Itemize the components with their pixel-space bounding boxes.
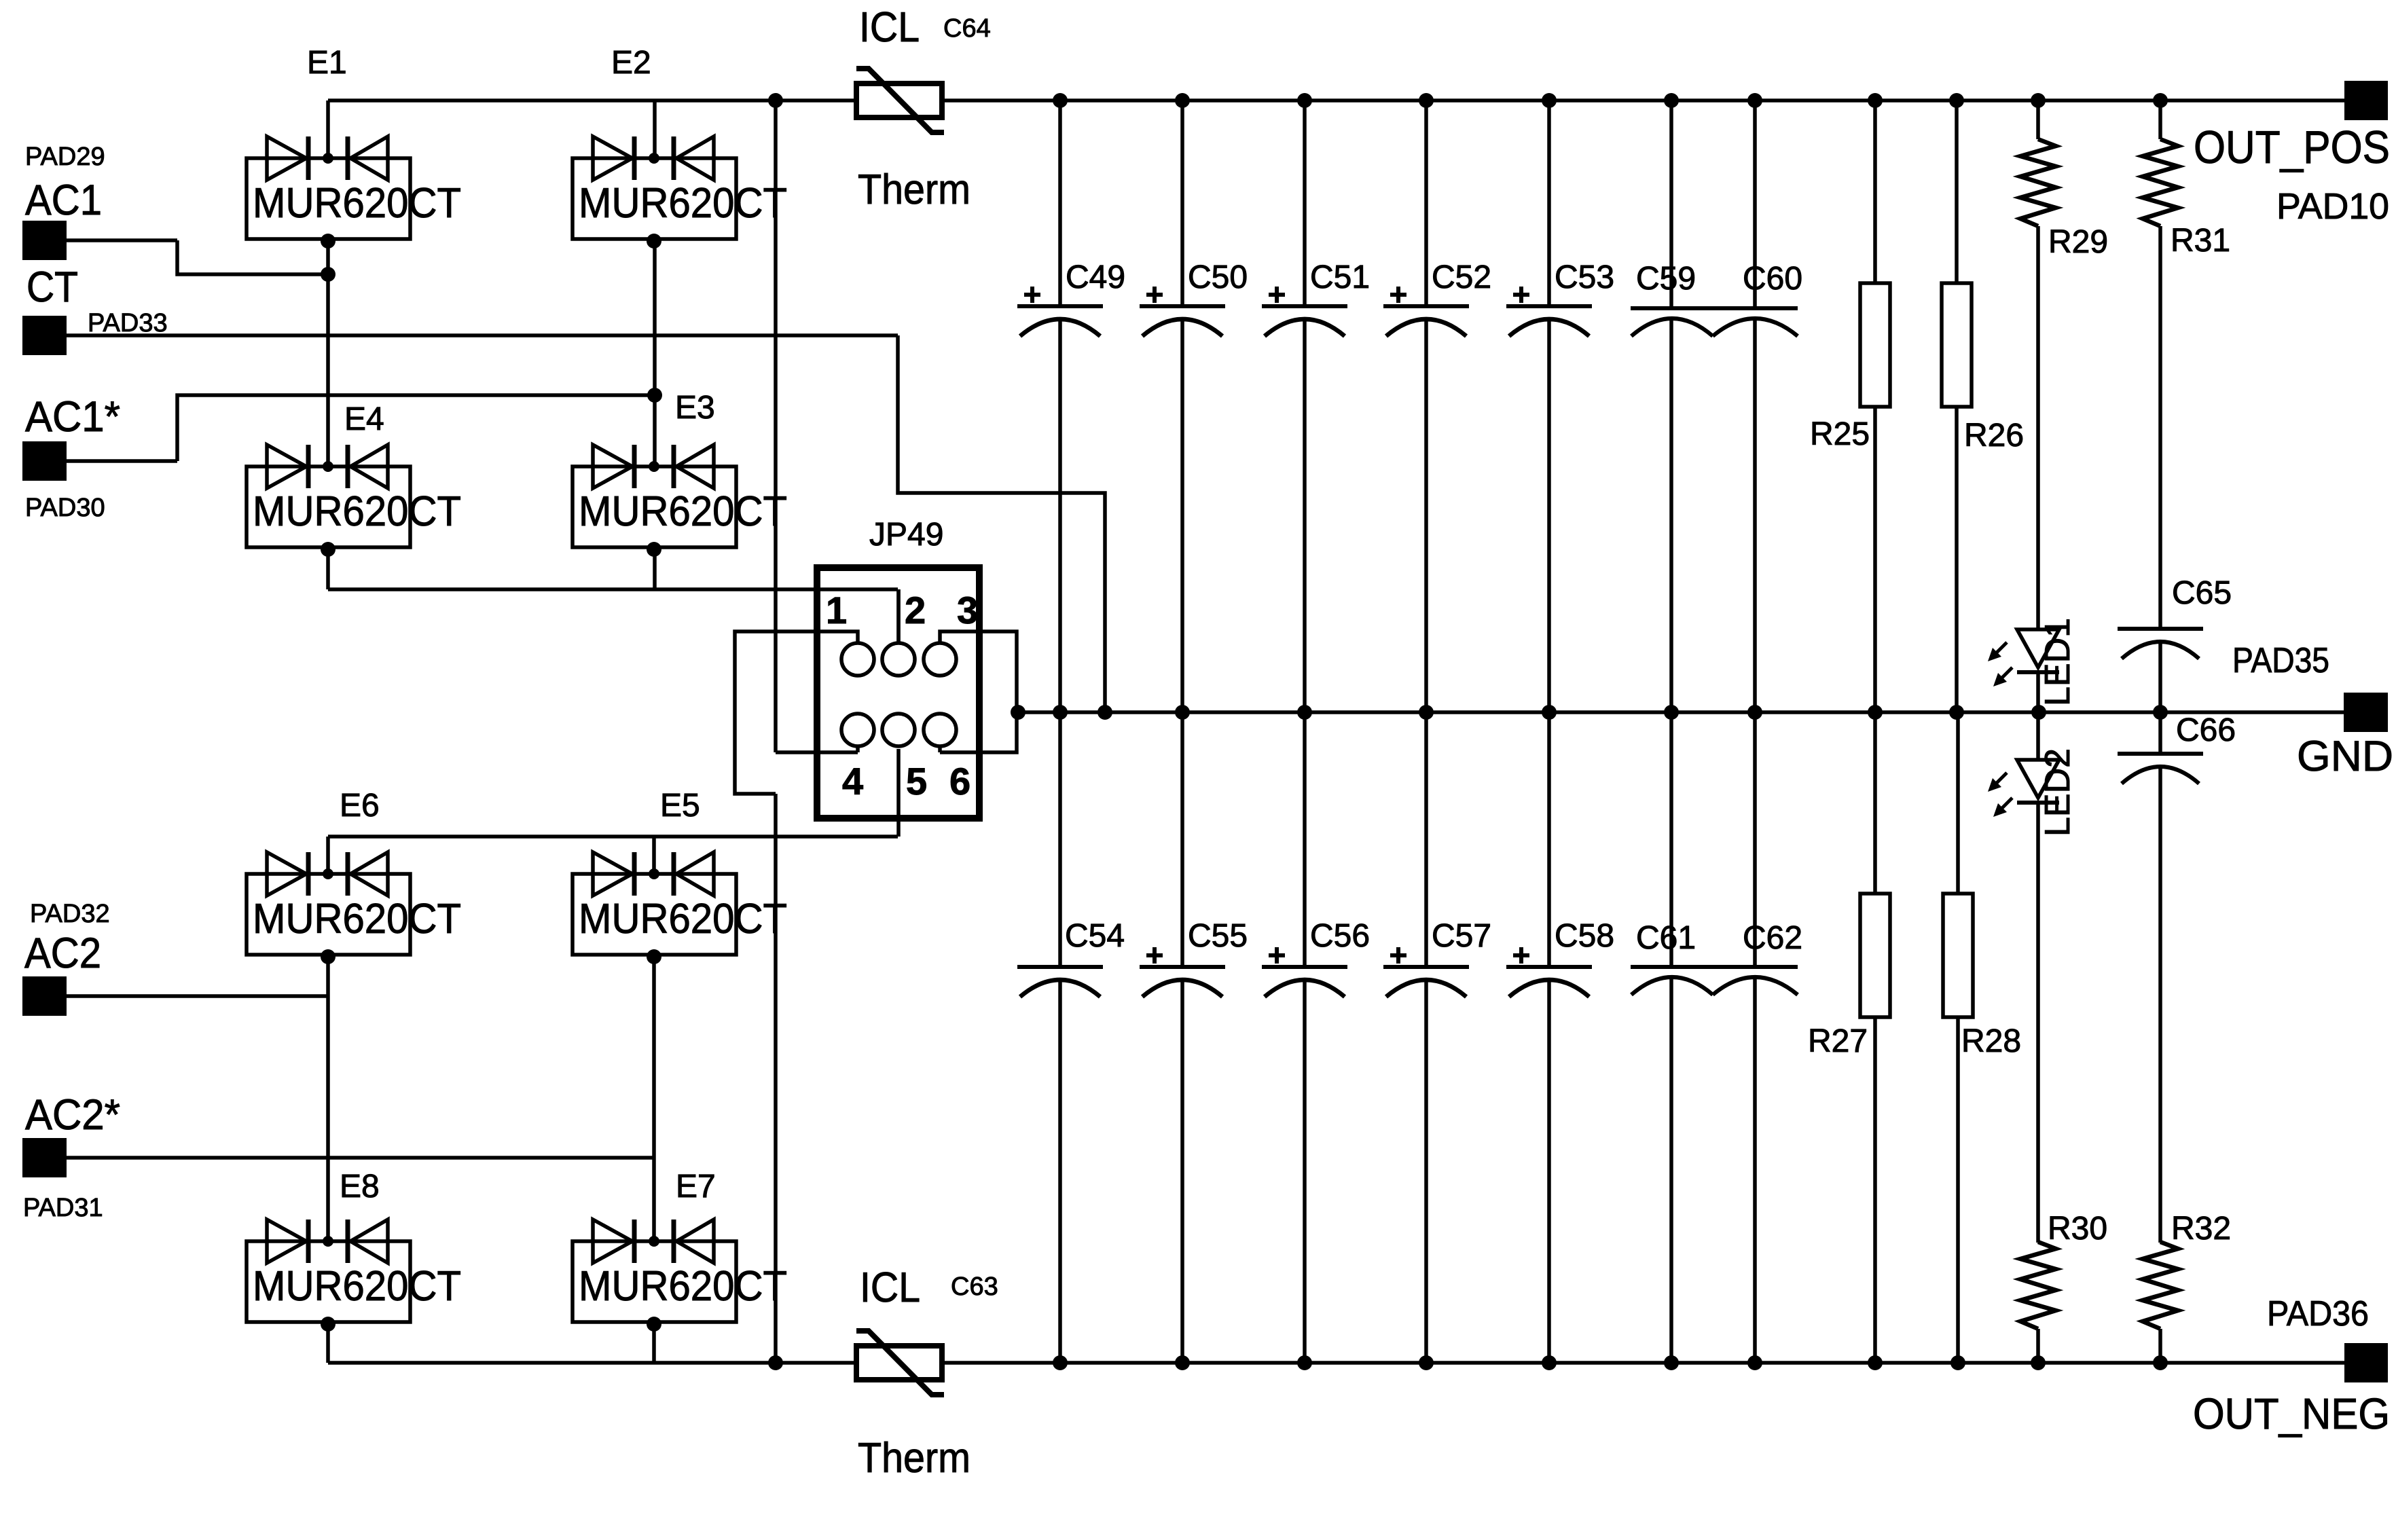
svg-text:R26: R26	[1964, 418, 2024, 454]
svg-text:MUR620CT: MUR620CT	[253, 488, 461, 535]
svg-text:JP49: JP49	[869, 517, 943, 553]
svg-text:E4: E4	[344, 401, 384, 437]
svg-text:C56: C56	[1310, 918, 1370, 954]
svg-text:C59: C59	[1636, 261, 1696, 297]
svg-text:ICL: ICL	[860, 1264, 920, 1311]
svg-text:C61: C61	[1636, 920, 1696, 956]
svg-text:R30: R30	[2048, 1211, 2107, 1247]
svg-text:OUT_NEG: OUT_NEG	[2193, 1389, 2390, 1438]
svg-text:C51: C51	[1310, 259, 1370, 295]
svg-text:C60: C60	[1743, 261, 1802, 297]
svg-text:Therm: Therm	[858, 166, 970, 213]
svg-text:PAD32: PAD32	[30, 900, 110, 928]
svg-text:PAD10: PAD10	[2276, 186, 2389, 227]
svg-text:E5: E5	[660, 788, 700, 824]
svg-text:R29: R29	[2048, 224, 2108, 260]
svg-text:MUR620CT: MUR620CT	[579, 1263, 787, 1310]
svg-text:AC1: AC1	[25, 177, 102, 224]
svg-text:C52: C52	[1432, 259, 1491, 295]
svg-text:R32: R32	[2171, 1211, 2231, 1247]
svg-text:R27: R27	[1808, 1023, 1868, 1059]
svg-text:AC2*: AC2*	[25, 1091, 120, 1139]
svg-text:C57: C57	[1432, 918, 1491, 954]
svg-text:E3: E3	[675, 390, 715, 426]
svg-text:ICL: ICL	[859, 4, 920, 51]
svg-text:MUR620CT: MUR620CT	[579, 180, 787, 227]
svg-text:GND: GND	[2297, 733, 2393, 780]
svg-text:C66: C66	[2176, 712, 2236, 748]
svg-text:C58: C58	[1555, 918, 1614, 954]
svg-text:AC2: AC2	[24, 930, 101, 977]
svg-text:LED1: LED1	[2038, 618, 2077, 706]
svg-text:E1: E1	[307, 45, 347, 81]
svg-text:MUR620CT: MUR620CT	[579, 488, 787, 535]
svg-text:5: 5	[906, 760, 927, 803]
svg-text:C50: C50	[1188, 259, 1248, 295]
svg-text:LED2: LED2	[2038, 748, 2077, 837]
svg-text:C63: C63	[951, 1272, 998, 1301]
svg-text:C54: C54	[1065, 918, 1125, 954]
svg-text:E2: E2	[611, 45, 651, 81]
svg-text:MUR620CT: MUR620CT	[253, 180, 461, 227]
svg-text:R28: R28	[1961, 1023, 2021, 1059]
svg-text:PAD31: PAD31	[23, 1194, 103, 1222]
svg-text:4: 4	[842, 760, 863, 803]
svg-text:MUR620CT: MUR620CT	[253, 896, 461, 942]
svg-text:E6: E6	[340, 788, 380, 824]
svg-text:C55: C55	[1188, 918, 1248, 954]
svg-text:Therm: Therm	[858, 1435, 970, 1482]
svg-text:PAD36: PAD36	[2267, 1294, 2369, 1334]
svg-text:E7: E7	[676, 1169, 716, 1205]
svg-text:6: 6	[949, 760, 970, 803]
svg-text:MUR620CT: MUR620CT	[253, 1263, 461, 1310]
svg-text:C65: C65	[2172, 575, 2232, 611]
svg-text:PAD29: PAD29	[25, 143, 105, 171]
svg-text:PAD35: PAD35	[2232, 641, 2329, 680]
svg-text:OUT_POS: OUT_POS	[2194, 122, 2390, 173]
svg-text:2: 2	[905, 589, 926, 631]
svg-text:CT: CT	[26, 263, 78, 311]
svg-text:C64: C64	[943, 14, 991, 43]
svg-text:R31: R31	[2171, 223, 2230, 259]
svg-text:E8: E8	[340, 1169, 380, 1205]
svg-text:C62: C62	[1743, 920, 1802, 956]
svg-text:1: 1	[826, 589, 847, 631]
svg-text:3: 3	[957, 589, 978, 631]
svg-text:R25: R25	[1810, 416, 1870, 452]
svg-text:C53: C53	[1555, 259, 1614, 295]
svg-text:PAD33: PAD33	[88, 309, 168, 337]
svg-text:PAD30: PAD30	[25, 494, 105, 522]
svg-text:MUR620CT: MUR620CT	[579, 896, 787, 942]
svg-text:C49: C49	[1066, 259, 1125, 295]
svg-text:AC1*: AC1*	[25, 393, 120, 441]
